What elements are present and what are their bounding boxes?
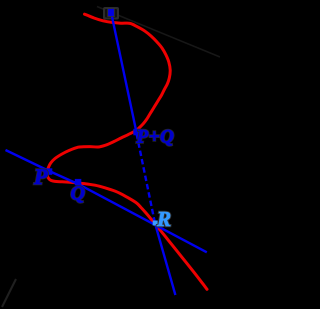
elliptic curve (red cubic)	[47, 14, 207, 289]
third line through R	[155, 224, 175, 295]
point R marker (light blue)	[153, 221, 158, 226]
vertical line upper segment (0 to P+Q)	[111, 11, 137, 132]
point 0 marker (top)	[108, 9, 115, 17]
point P+Q marker	[133, 129, 140, 136]
point P marker	[46, 168, 53, 175]
elliptic curve point addition diagram	[0, 0, 220, 309]
vertical line dashed segment (P+Q to R)	[137, 134, 156, 225]
svg-text:P+Q: P+Q	[136, 126, 175, 147]
label -R at top point (black, invisible halo)	[103, 7, 119, 20]
x-axis (black, near-invisible halo)	[97, 7, 220, 58]
svg-text:P: P	[33, 164, 48, 189]
svg-text:Q: Q	[71, 183, 85, 205]
chord line through P and Q	[6, 150, 207, 252]
point Q marker	[75, 179, 82, 186]
y-axis fragment bottom-left (black, near-invisible halo)	[2, 279, 16, 307]
svg-text:R: R	[156, 207, 171, 231]
